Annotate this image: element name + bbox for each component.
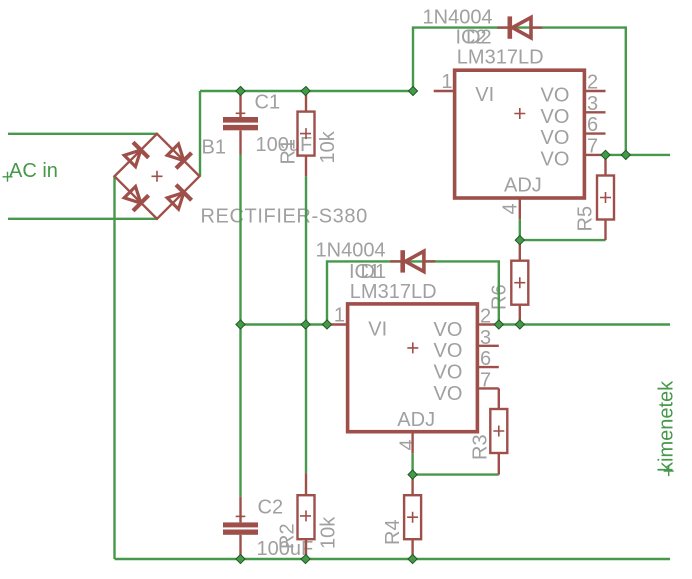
resistor R5 origin cross	[600, 192, 611, 203]
IC2 pin 7	[584, 154, 605, 156]
IC1 origin cross	[407, 342, 418, 353]
diode D1 triangle	[405, 251, 424, 271]
IC2 origin cross	[514, 108, 525, 119]
svg-text:AC in: AC in	[9, 160, 58, 182]
net label AC in origin cross	[3, 172, 13, 182]
svg-text:VO: VO	[541, 149, 570, 171]
IC1 pin 3	[477, 345, 498, 347]
svg-text:10k: 10k	[317, 130, 339, 163]
diode D2 cathode lead	[497, 26, 507, 28]
resistor R5 leads	[604, 155, 606, 240]
svg-text:R2: R2	[277, 523, 299, 549]
IC1 pin 4	[411, 432, 413, 454]
junction R1 at top bus	[301, 86, 310, 95]
IC1 pin 2	[477, 323, 498, 325]
diode D1 anode lead	[425, 260, 435, 262]
resistor R6 origin cross	[514, 277, 525, 288]
IC2 pin 3	[584, 111, 605, 113]
resistor R3 body	[490, 409, 507, 453]
IC1 pin 1	[326, 323, 347, 325]
svg-text:C1: C1	[255, 92, 281, 114]
IC1 pin 6	[477, 366, 498, 368]
capacitor C2 bottom lead	[239, 535, 241, 559]
diode D1 cathode bar	[400, 250, 405, 272]
resistor R6 body	[511, 261, 528, 305]
resistor R4 origin cross	[407, 512, 418, 523]
wire output row 1	[606, 154, 671, 156]
capacitor C1 plus tick	[236, 112, 246, 114]
svg-text:VO: VO	[541, 127, 570, 149]
diode D2 anode lead	[532, 26, 542, 28]
junction IC1 pin2 / D1 loop	[494, 320, 503, 329]
op-amp regulator IC2 body	[455, 70, 585, 198]
bridge B1 origin cross	[152, 171, 163, 182]
resistor R4 body	[404, 495, 421, 539]
bridge diode top-right	[165, 142, 192, 169]
capacitor C1 plates	[223, 117, 258, 123]
svg-text:D2: D2	[466, 27, 492, 49]
junction D2 loop at top bus	[408, 86, 417, 95]
wire IC2 pin4 to junction	[519, 219, 521, 240]
svg-text:4: 4	[500, 203, 522, 214]
junction R2 at bottom bus	[301, 554, 310, 563]
IC2 pin 6	[584, 132, 605, 134]
junction C1 at top bus	[236, 86, 245, 95]
bridge diode top-left	[122, 142, 149, 169]
wire DC plus from bridge right corner up	[199, 91, 201, 176]
wire D1 loop	[327, 261, 499, 324]
capacitor C2 plus tick	[236, 515, 246, 517]
svg-text:R1: R1	[278, 139, 300, 165]
IC1 pin 7	[477, 387, 498, 389]
resistor R2 body	[298, 495, 315, 539]
diode D2 triangle	[512, 17, 531, 37]
svg-text:kimenetek: kimenetek	[656, 380, 678, 472]
capacitor C2 plates	[223, 522, 258, 527]
resistor R3 origin cross	[493, 426, 504, 437]
svg-text:VO: VO	[434, 383, 463, 405]
svg-text:R4: R4	[382, 519, 404, 545]
bridge diode bottom-right	[165, 185, 192, 212]
resistor R2 origin cross	[300, 510, 311, 521]
bridge diode bottom-left	[122, 184, 149, 211]
junction R1/R2 at input row	[301, 320, 310, 329]
wire AC bottom	[8, 218, 157, 220]
wire DC minus from bridge left corner down	[113, 176, 115, 559]
svg-text:1N4004: 1N4004	[316, 240, 386, 262]
svg-text:B1: B1	[202, 137, 226, 159]
junction IC1 pin1 / D1 loop	[322, 320, 331, 329]
IC2 pin 1	[434, 90, 455, 92]
wire junction to R5 bottom	[520, 239, 606, 241]
svg-text:D1: D1	[361, 261, 387, 283]
svg-text:4: 4	[397, 439, 419, 450]
diode D1 cathode lead	[390, 260, 400, 262]
junction R6 at output row 2	[515, 320, 524, 329]
junction D2 loop at output row 1	[621, 150, 630, 159]
svg-text:R3: R3	[470, 434, 492, 460]
svg-text:10k: 10k	[318, 516, 340, 549]
junction IC2 pin4 / R5 / R6	[515, 236, 524, 245]
resistor R6 leads	[519, 240, 521, 324]
wire C2 upper branch	[239, 325, 241, 497]
svg-text:1: 1	[334, 305, 345, 327]
resistor R4 leads	[411, 475, 413, 559]
svg-text:VI: VI	[368, 318, 387, 340]
wire top bus	[200, 90, 413, 92]
svg-text:R5: R5	[575, 206, 597, 232]
svg-text:VO: VO	[434, 319, 463, 341]
wire C1 lower branch	[239, 155, 241, 325]
wire R2 upper branch	[305, 325, 307, 474]
junction C2 at bottom bus	[236, 554, 245, 563]
resistor R2 leads	[305, 473, 307, 559]
svg-text:VI: VI	[475, 84, 494, 106]
wire AC top	[8, 133, 157, 135]
junction IC2 pin7 output	[601, 150, 610, 159]
svg-text:VO: VO	[541, 106, 570, 128]
svg-text:LM317LD: LM317LD	[457, 47, 544, 69]
capacitor C1 bottom lead	[239, 130, 241, 154]
wire middle input row	[241, 323, 328, 325]
svg-text:LM317LD: LM317LD	[350, 281, 437, 303]
wire IC1 pin4 to junction	[411, 453, 413, 474]
capacitor C1 top lead	[239, 91, 241, 117]
junction C1/C2 at input row	[236, 320, 245, 329]
svg-text:1: 1	[441, 71, 452, 93]
svg-text:ADJ: ADJ	[504, 175, 542, 197]
IC2 pin 4	[519, 198, 521, 219]
wire output row 2	[499, 323, 670, 325]
svg-text:1N4004: 1N4004	[423, 6, 493, 28]
junction R4 at bottom bus	[408, 554, 417, 563]
net label kimenetek origin cross	[664, 466, 674, 476]
wire bottom bus	[115, 558, 671, 560]
wire D2 loop	[413, 28, 626, 155]
wire junction to R3 bottom	[413, 473, 499, 475]
svg-text:RECTIFIER-S380: RECTIFIER-S380	[201, 205, 368, 227]
resistor R5 body	[597, 176, 614, 220]
IC2 pin 2	[584, 90, 605, 92]
capacitor C2 top lead	[239, 497, 241, 523]
junction IC1 pin4 / R3 / R4	[408, 470, 417, 479]
wire R1 lower branch	[305, 176, 307, 324]
svg-text:ADJ: ADJ	[397, 409, 435, 431]
svg-text:VO: VO	[434, 340, 463, 362]
resistor R1 origin cross	[300, 128, 311, 139]
svg-text:VO: VO	[434, 362, 463, 384]
resistor R1 leads	[305, 91, 307, 176]
op-amp regulator IC1 body	[348, 304, 478, 432]
svg-text:C2: C2	[258, 497, 284, 519]
resistor R3 leads	[498, 388, 500, 474]
resistor R1 body	[298, 112, 315, 156]
diode D2 cathode bar	[507, 16, 512, 38]
bridge rectifier B1 diamond	[115, 134, 200, 219]
svg-text:VO: VO	[541, 85, 570, 107]
